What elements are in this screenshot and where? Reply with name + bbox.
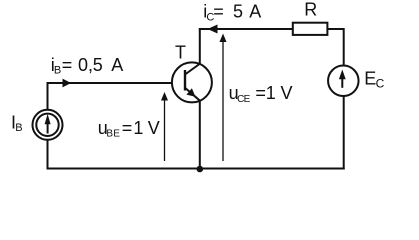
svg-text:iB=0,5A: iB=0,5A bbox=[51, 55, 124, 77]
svg-text:uBE=1V: uBE=1V bbox=[98, 118, 160, 140]
svg-text:uCE=1V: uCE=1V bbox=[229, 83, 293, 105]
svg-text:R: R bbox=[304, 0, 317, 20]
svg-text:T: T bbox=[175, 43, 186, 63]
